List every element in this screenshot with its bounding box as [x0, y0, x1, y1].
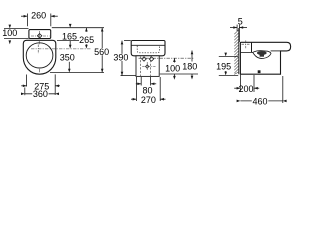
bowl centreline tick bottom	[39, 69, 41, 72]
dim 460 (bottom)	[240, 76, 282, 103]
svg-text:350: 350	[60, 53, 75, 63]
drain trap diamond + cross	[146, 65, 149, 68]
drain outlet square	[258, 70, 261, 73]
fixing axis dash-dot	[139, 57, 194, 59]
svg-text:270: 270	[141, 95, 156, 105]
dim 270 (bottom)	[131, 77, 166, 101]
overflow cross vertical	[37, 45, 39, 54]
svg-text:265: 265	[79, 35, 94, 45]
svg-text:360: 360	[33, 89, 48, 99]
dim 390	[121, 41, 136, 76]
svg-text:5: 5	[238, 16, 243, 26]
siphon bottom leader	[160, 73, 198, 75]
tap ledge (plan)	[29, 30, 51, 39]
leader L4 (bottom reference)	[50, 72, 104, 74]
dim 80 (bottom)	[136, 77, 156, 86]
faucet centreline vertical	[39, 31, 41, 41]
wall hatching	[234, 30, 238, 74]
faucet centreline horizontal	[31, 35, 50, 37]
svg-text:100: 100	[165, 64, 180, 74]
underside line to dish	[271, 50, 281, 52]
faucet cross on ledge	[242, 40, 251, 48]
svg-text:100: 100	[2, 28, 17, 38]
inner side walls (hidden)	[137, 46, 159, 53]
block bottom line	[241, 51, 253, 53]
dim 180 (middle right)	[191, 51, 193, 62]
basin outer outline (plan)	[23, 40, 56, 74]
inner bowl oval	[26, 43, 53, 68]
dim 265	[85, 28, 87, 32]
body front view	[131, 41, 165, 56]
svg-text:200: 200	[238, 84, 253, 94]
dim 5 (top)	[230, 25, 247, 42]
dim 560	[101, 28, 103, 73]
faucet hole diamond	[37, 34, 41, 38]
dim 100 (left)	[4, 28, 29, 38]
svg-text:195: 195	[216, 62, 231, 72]
svg-text:560: 560	[94, 47, 109, 57]
ledge block front edge	[251, 43, 253, 53]
bowl centreline tick top	[38, 41, 40, 44]
fixing hole diamonds	[142, 57, 146, 61]
overflow axis dash-dot (long)	[31, 48, 91, 50]
svg-text:260: 260	[31, 11, 46, 21]
dim 195	[219, 56, 238, 75]
svg-text:165: 165	[62, 32, 77, 42]
svg-text:460: 460	[252, 96, 267, 106]
bowl dish section	[253, 51, 271, 59]
rim line	[131, 44, 165, 46]
leader L1 (top reference)	[52, 27, 104, 29]
dim 200 (bottom)	[234, 75, 259, 92]
svg-text:180: 180	[182, 61, 197, 71]
dim 165	[69, 24, 72, 28]
dim 360 (bottom)	[25, 88, 55, 96]
dim 100 (middle right)	[173, 58, 175, 62]
basin side profile	[240, 42, 290, 74]
semi-pedestal box	[136, 56, 159, 77]
hidden drain pipe dashes	[141, 57, 151, 77]
dim 260 (top)	[21, 14, 58, 27]
leader outline-top	[57, 40, 79, 42]
drain flange (dark)	[257, 51, 267, 55]
dim 275 (bottom)	[21, 74, 60, 95]
wall line	[238, 28, 240, 74]
svg-text:390: 390	[113, 53, 128, 63]
